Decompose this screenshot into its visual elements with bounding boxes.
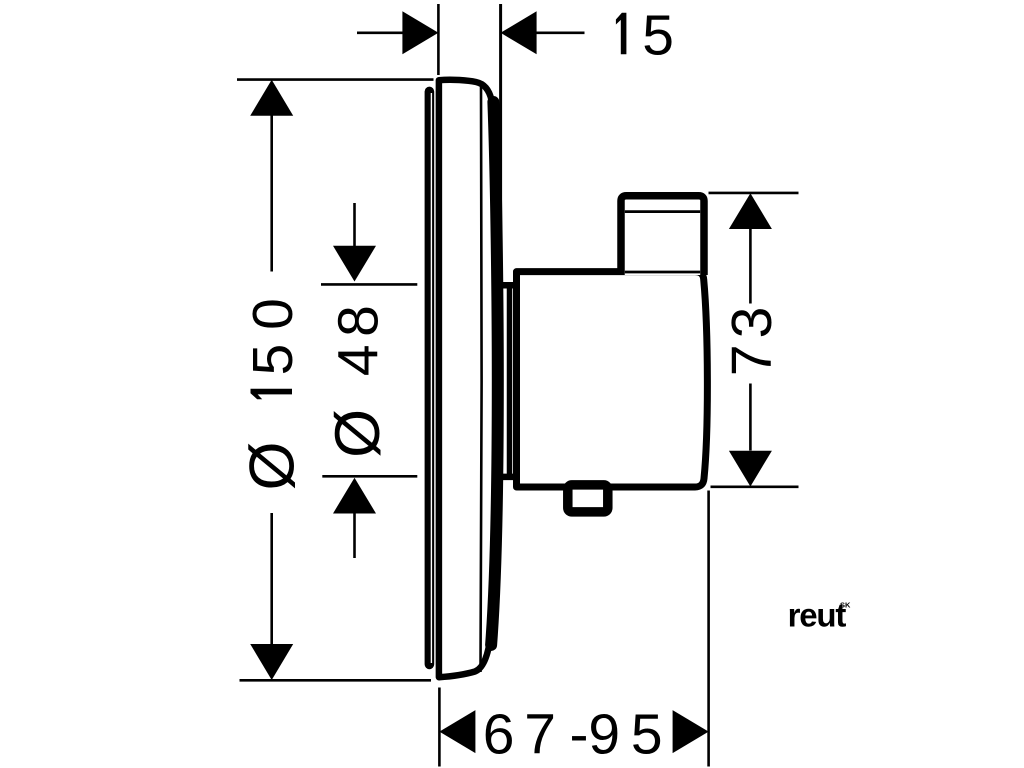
dim 67-95: left extension line bbox=[438, 688, 441, 767]
body top edge seen through handle stub bbox=[625, 271, 700, 274]
dim Ø150: top arrow bbox=[250, 80, 293, 116]
dim 73: top arrow bbox=[729, 193, 772, 229]
dim 73: value label bbox=[720, 307, 784, 377]
dim Ø150: value label bbox=[238, 298, 308, 490]
dim 73: bottom extension line bbox=[711, 485, 799, 488]
dim 73: bottom arrow bbox=[729, 451, 772, 487]
dim Ø150: bottom arrow bbox=[250, 644, 293, 680]
dim 15: left extension line bbox=[437, 4, 440, 75]
dim Ø150: dimension line lower segment bbox=[270, 513, 273, 645]
dim 15: left tail line bbox=[357, 31, 403, 34]
dim 73: dimension line lower segment bbox=[749, 384, 752, 451]
dim 15: left arrow bbox=[402, 11, 438, 54]
escutcheon plate outline (side view) bbox=[439, 80, 499, 677]
svg-text:reut: reut bbox=[788, 597, 847, 634]
valve neck left edge bbox=[507, 285, 513, 477]
dim Ø48: bottom arrow bbox=[333, 478, 376, 514]
escutcheon back sleeve (wall plate carrier) bbox=[425, 87, 435, 670]
handle stub rectangle on top of body bbox=[621, 196, 704, 275]
dim 67-95: right extension line bbox=[707, 491, 710, 767]
svg-text:67-95: 67-95 bbox=[483, 703, 663, 767]
svg-text:Ø: Ø bbox=[238, 441, 308, 490]
dim 15: right tail line bbox=[536, 31, 585, 34]
dim 15: value label digit 1 bbox=[616, 13, 627, 55]
valve body (functional unit box) bbox=[517, 272, 708, 487]
dim 15: right extension line bbox=[499, 4, 502, 287]
svg-text:Ø: Ø bbox=[323, 409, 393, 458]
svg-text:SK: SK bbox=[840, 601, 851, 610]
plate front-face crease line bbox=[481, 85, 482, 672]
dim Ø150: top extension line bbox=[237, 78, 434, 81]
dim 15: right arrow bbox=[501, 11, 537, 54]
dim Ø150: dimension line upper segment bbox=[270, 115, 273, 272]
svg-text:5: 5 bbox=[642, 3, 674, 67]
dim Ø48: top extension line bbox=[321, 283, 417, 286]
dim Ø150: bottom extension line bbox=[240, 679, 432, 682]
dim 67-95: left arrow bbox=[439, 710, 475, 753]
valve neck (48mm collar) top edge bbox=[495, 282, 518, 289]
dim 73: dimension line upper segment bbox=[749, 229, 752, 304]
dim 73: top extension line bbox=[709, 192, 799, 195]
plate front face thick rim band bbox=[491, 102, 498, 645]
escutcheon back sleeve inner white line bbox=[430, 93, 432, 663]
handle stub seam line bbox=[625, 210, 700, 213]
dim 67-95: right arrow bbox=[673, 710, 709, 753]
dim Ø48: top leader line bbox=[353, 203, 356, 248]
bottom tab on body bbox=[568, 485, 608, 512]
dim Ø48: bottom extension line bbox=[322, 475, 417, 478]
dim Ø48: bottom leader line bbox=[353, 514, 356, 559]
dim Ø48: value label bbox=[323, 305, 393, 458]
valve neck bottom edge bbox=[495, 474, 518, 481]
dim Ø48: top arrow bbox=[333, 246, 376, 282]
